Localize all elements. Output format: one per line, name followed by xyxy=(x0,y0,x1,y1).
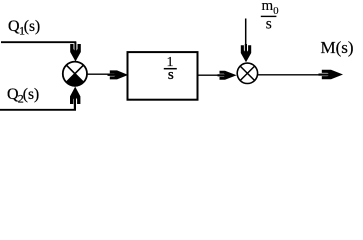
summing junction S2 X diagonals xyxy=(240,66,254,80)
summing junction S1 filled bottom quadrant xyxy=(66,74,83,86)
svg-text:M(s): M(s) xyxy=(321,38,354,57)
arrowhead stem into block xyxy=(108,74,118,76)
arrowhead Q2 into summing junction S1 (up) xyxy=(70,87,80,104)
arrowhead Q1 into summing junction S1 (down) xyxy=(70,44,81,62)
summing junction S2 circle xyxy=(237,63,257,83)
arrowhead into integrator block xyxy=(110,70,128,79)
arrowhead into summing junction S2 xyxy=(220,71,237,80)
wire Q2 vertical stub xyxy=(74,97,76,111)
wire m0/s vertical xyxy=(245,19,247,50)
arrowhead stem into S2 xyxy=(218,74,227,76)
svg-text:Q2(s): Q2(s) xyxy=(7,86,39,106)
m0/s fraction bar xyxy=(261,15,277,17)
integrator block 1/s rectangle xyxy=(128,52,198,100)
svg-text:Q1(s): Q1(s) xyxy=(8,18,40,38)
summing junction S1 X diagonals xyxy=(66,65,83,82)
summing junction S1 circle xyxy=(63,62,87,86)
integrator fraction bar xyxy=(164,68,177,70)
arrowhead m0/s into summing junction S2 (down) xyxy=(241,45,251,62)
wire integrator to summing junction S2 xyxy=(199,74,226,76)
wire Q1 horizontal xyxy=(1,41,76,43)
arrowhead stem m0 xyxy=(245,44,247,54)
svg-text:s: s xyxy=(266,16,272,33)
wire S1 to integrator block xyxy=(87,73,116,75)
wire S2 to output xyxy=(258,74,330,76)
arrowhead output M(s) xyxy=(322,70,343,79)
arrowhead stem output xyxy=(319,73,332,75)
wire Q1 vertical stub xyxy=(74,42,76,53)
svg-text:s: s xyxy=(168,67,174,83)
wire Q2 horizontal xyxy=(0,109,76,111)
